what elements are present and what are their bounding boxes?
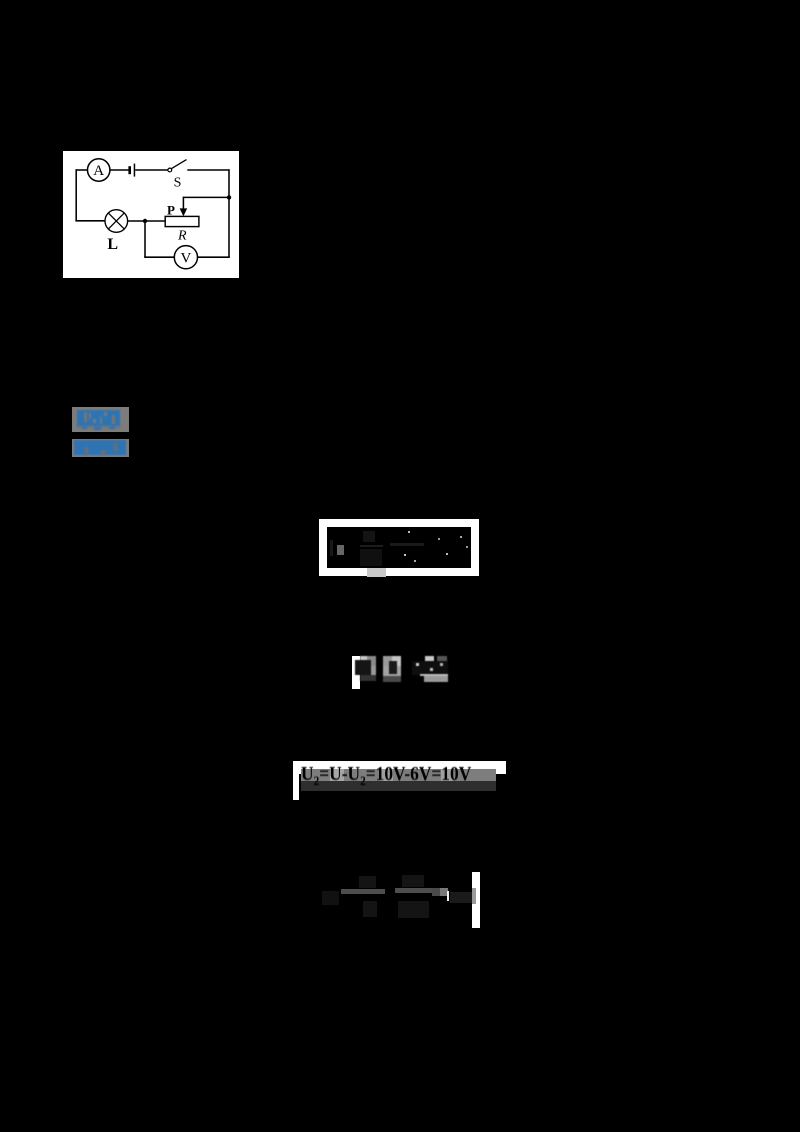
formula block 4 xyxy=(322,891,339,905)
slider P arrow head xyxy=(180,208,188,216)
switch S pivot xyxy=(168,168,172,172)
wire: ammeter to battery xyxy=(110,169,129,171)
formula 1 faint content xyxy=(337,545,344,555)
wire: left vertical side xyxy=(75,169,77,221)
fraction bar 2 xyxy=(395,888,443,893)
wire: left top from ammeter to top-left corner xyxy=(76,169,87,171)
formula 3 text xyxy=(301,763,484,789)
ammeter A xyxy=(88,159,110,181)
battery negative plate (short thick) xyxy=(128,166,131,174)
equals and 12 ohm xyxy=(432,888,440,896)
wire: battery to switch pivot xyxy=(135,169,168,171)
analysis tag gray box with blue text xyxy=(72,439,129,457)
fraction bar 1 xyxy=(341,889,385,894)
lamp L xyxy=(105,210,128,233)
formula block 3: white band xyxy=(293,761,506,774)
wire: slider P vertical drop xyxy=(182,197,184,209)
wire: voltmeter right to right side xyxy=(198,256,230,258)
wire: slider P horizontal xyxy=(183,196,229,198)
formula block 1: white frame xyxy=(319,519,479,576)
gray tile row xyxy=(301,769,496,781)
white bar right xyxy=(472,872,480,928)
answer tag gray box with blue text xyxy=(72,407,129,432)
battery positive plate (long thin) xyxy=(134,164,136,177)
wire: to voltmeter left xyxy=(144,256,174,258)
switch S lever xyxy=(172,160,187,169)
voltmeter V xyxy=(174,246,197,269)
node: junction dot right side xyxy=(227,195,231,199)
wire: right vertical side xyxy=(228,169,230,257)
wire: switch to top-right corner xyxy=(187,169,229,171)
formula block 2 xyxy=(352,656,360,689)
circuit schematic svg xyxy=(63,151,239,278)
wire: junction down to voltmeter row xyxy=(144,221,146,257)
circuit figure white background box xyxy=(63,151,239,278)
rheostat R body xyxy=(165,216,199,226)
wire: lamp to rheostat xyxy=(128,220,166,222)
wire: bottom-left to lamp L xyxy=(75,220,105,222)
node: junction dot between lamp and rheostat xyxy=(143,219,147,223)
